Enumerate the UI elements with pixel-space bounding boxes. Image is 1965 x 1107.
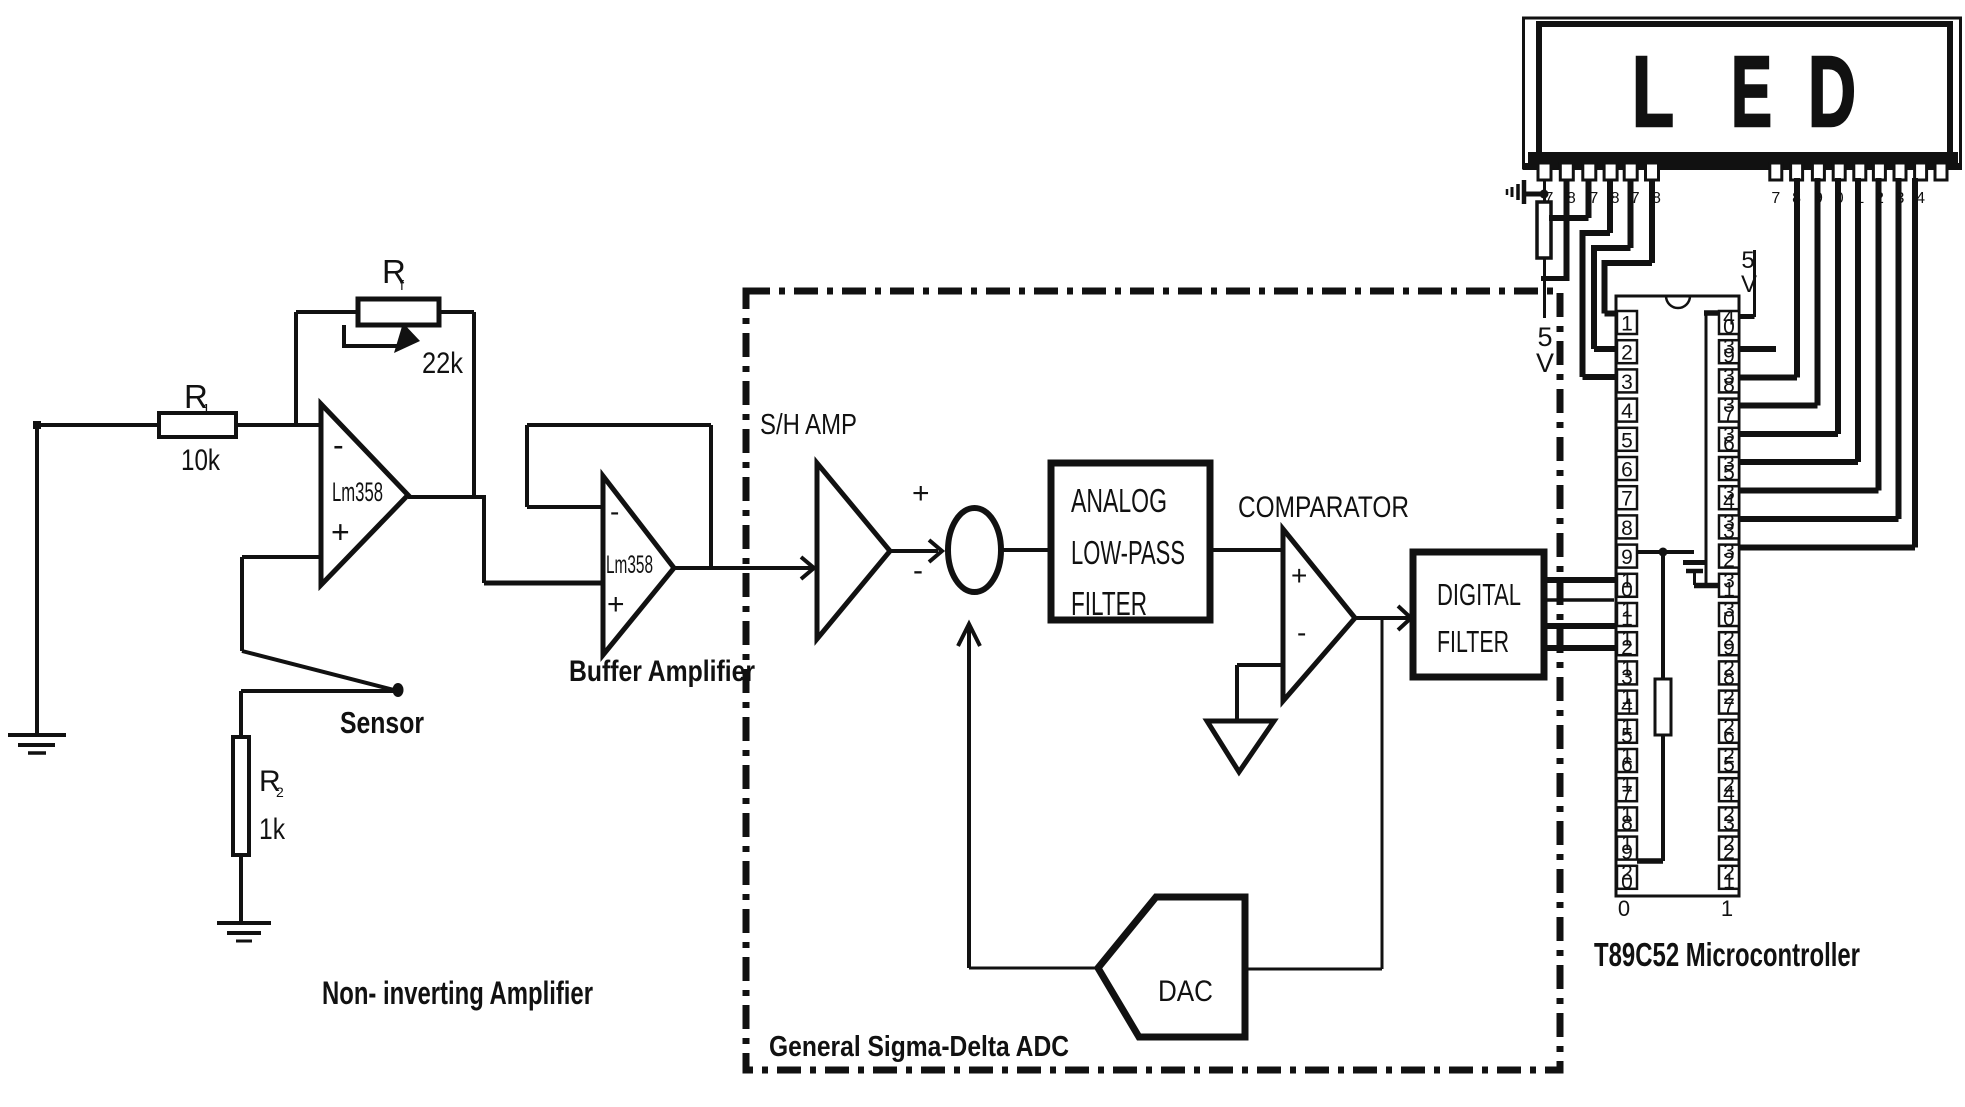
svg-text:V: V	[1536, 348, 1554, 378]
svg-text:E: E	[1731, 36, 1772, 148]
svg-text:+: +	[331, 514, 350, 550]
svg-text:8: 8	[1611, 190, 1620, 207]
svg-text:7: 7	[1589, 190, 1598, 207]
svg-text:8: 8	[1792, 190, 1801, 207]
svg-text:Lm358: Lm358	[606, 551, 653, 579]
svg-text:9: 9	[1621, 546, 1633, 569]
svg-text:3: 3	[1621, 371, 1633, 394]
svg-text:22k: 22k	[422, 347, 464, 380]
svg-text:T89C52 Microcontroller: T89C52 Microcontroller	[1594, 936, 1860, 973]
svg-text:Buffer Amplifier: Buffer Amplifier	[569, 655, 755, 688]
svg-text:L: L	[1632, 36, 1674, 148]
svg-text:1: 1	[1855, 190, 1864, 207]
svg-text:7: 7	[1631, 190, 1640, 207]
svg-text:Non- inverting Amplifier: Non- inverting Amplifier	[322, 975, 593, 1011]
svg-text:1: 1	[1721, 896, 1733, 921]
svg-text:FILTER: FILTER	[1071, 585, 1147, 622]
svg-text:f: f	[400, 277, 404, 293]
svg-text:-: -	[913, 554, 923, 587]
svg-text:+: +	[607, 588, 625, 621]
svg-text:D: D	[1808, 36, 1856, 148]
svg-text:5: 5	[1741, 247, 1754, 274]
svg-text:-: -	[1297, 617, 1306, 648]
svg-text:General Sigma-Delta ADC: General Sigma-Delta ADC	[769, 1031, 1069, 1063]
svg-text:4: 4	[1916, 190, 1925, 207]
svg-text:+: +	[912, 477, 930, 510]
svg-text:6: 6	[1621, 459, 1633, 482]
svg-text:4: 4	[1621, 400, 1633, 423]
svg-text:+: +	[1291, 560, 1307, 591]
svg-text:2: 2	[1621, 342, 1633, 365]
svg-text:-: -	[333, 427, 344, 463]
svg-text:-: -	[610, 496, 619, 527]
svg-text:DIGITAL: DIGITAL	[1437, 577, 1521, 612]
svg-text:9: 9	[1814, 190, 1823, 207]
svg-text:5: 5	[1621, 429, 1633, 452]
svg-text:ANALOG: ANALOG	[1071, 482, 1167, 519]
svg-text:0: 0	[1621, 870, 1633, 893]
svg-text:7: 7	[1545, 190, 1554, 207]
svg-text:1k: 1k	[259, 813, 286, 846]
svg-text:COMPARATOR: COMPARATOR	[1238, 491, 1409, 524]
svg-text:1: 1	[1723, 870, 1735, 893]
svg-text:0: 0	[1618, 896, 1630, 921]
svg-text:10k: 10k	[181, 444, 221, 477]
svg-text:7: 7	[1771, 190, 1780, 207]
svg-text:FILTER: FILTER	[1437, 624, 1509, 659]
svg-text:8: 8	[1621, 517, 1633, 540]
svg-text:8: 8	[1652, 190, 1661, 207]
svg-text:2: 2	[276, 784, 284, 800]
svg-text:S/H AMP: S/H AMP	[760, 409, 857, 441]
svg-text:7: 7	[1621, 488, 1633, 511]
svg-text:1: 1	[202, 401, 210, 418]
svg-text:DAC: DAC	[1158, 975, 1213, 1008]
svg-text:0: 0	[1835, 190, 1844, 207]
svg-text:Sensor: Sensor	[340, 705, 424, 740]
svg-text:1: 1	[1621, 313, 1633, 336]
svg-text:Lm358: Lm358	[332, 477, 383, 507]
svg-text:LOW-PASS: LOW-PASS	[1071, 534, 1185, 571]
svg-text:2: 2	[1875, 190, 1884, 207]
svg-text:3: 3	[1896, 190, 1905, 207]
svg-text:8: 8	[1567, 190, 1576, 207]
